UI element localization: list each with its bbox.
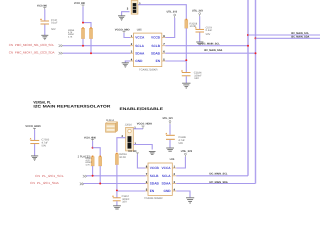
- svg-text:U25: U25: [137, 28, 142, 31]
- node junction EN: [185, 59, 187, 61]
- node VCCO_MIO (C747): [37, 4, 47, 9]
- wire: [185, 76, 187, 83]
- svg-text:50V: 50V: [42, 144, 47, 147]
- svg-text:EN: EN: [156, 59, 161, 63]
- resistor R3256: [81, 27, 84, 38]
- svg-text:CN PMC_MIO46_501_I2C0_SCL: CN PMC_MIO46_501_I2C0_SCL: [9, 43, 55, 47]
- svg-text:I2C_MAIN_SDA: I2C_MAIN_SDA: [291, 36, 310, 39]
- wire I2C_MAIN_SCL bus vertical: [247, 0, 249, 176]
- left pin stubs: [130, 38, 134, 62]
- wire: [92, 166, 94, 176]
- svg-text:SDAA: SDAA: [162, 182, 172, 186]
- capacitor C579: [195, 26, 213, 36]
- svg-text:SCLA: SCLA: [162, 174, 171, 178]
- wire: [169, 124, 171, 135]
- svg-text:SDAA: SDAA: [135, 51, 145, 55]
- svg-text:SCLA: SCLA: [135, 44, 144, 48]
- wire I2C_MAIN_SDA to right edge: [256, 37, 320, 39]
- net PL_I2C1_SDA: [30, 181, 84, 185]
- svg-text:VCCB: VCCB: [150, 166, 160, 170]
- wire I2C_MAIN_SDA bus vertical: [255, 0, 257, 184]
- node junction: [82, 22, 84, 24]
- wire: [137, 154, 145, 168]
- ground: [122, 63, 129, 67]
- node VCCO_HDIO (pullups): [84, 136, 96, 141]
- net PMC_MIO46_501_I2C0_SCL: [9, 43, 63, 47]
- wire I2C_MAIN_SCL to right edge: [248, 34, 320, 36]
- node junction: [90, 52, 92, 54]
- node junction: [92, 147, 94, 149]
- svg-text:VCCO_HDIO: VCCO_HDIO: [25, 125, 40, 128]
- wire SDAB to bus: [165, 52, 255, 54]
- wire EN row: [117, 190, 145, 192]
- svg-text:4.7K: 4.7K: [86, 163, 91, 166]
- wire: [34, 130, 36, 140]
- node junction EN: [116, 190, 118, 192]
- svg-text:VCCO_HDIO: VCCO_HDIO: [137, 123, 152, 126]
- svg-text:J2016: J2016: [125, 124, 133, 127]
- node junction: [247, 34, 249, 36]
- node UTIL_3V3 (VCCA pin bottom): [181, 150, 193, 157]
- svg-text:UTIL_3V3: UTIL_3V3: [181, 150, 193, 153]
- svg-text:VCCO_MIO: VCCO_MIO: [37, 4, 47, 7]
- svg-text:VCCB: VCCB: [151, 36, 161, 40]
- svg-text:SCLB: SCLB: [150, 174, 159, 178]
- svg-text:TCA9517DGKR: TCA9517DGKR: [139, 69, 158, 72]
- svg-text:TCA9517DGKR: TCA9517DGKR: [144, 197, 163, 200]
- wire: [185, 61, 187, 72]
- pin numbers: [131, 35, 165, 62]
- ground: [113, 206, 121, 209]
- wire pin2 to R2016: [117, 138, 126, 152]
- svg-text:GND: GND: [164, 189, 172, 193]
- wire: [169, 140, 171, 148]
- svg-text:0.1uF: 0.1uF: [206, 29, 213, 32]
- svg-text:2 PLACES: 2 PLACES: [78, 155, 91, 158]
- wire SCLB to bus: [165, 45, 248, 47]
- connector J2016: [122, 124, 137, 151]
- node VCCO_MIO (pullups): [74, 2, 85, 7]
- op-amp U26 (I2C repeater TCA9517DGKR bottom): [144, 158, 176, 200]
- wire GND pin to ground: [125, 61, 130, 63]
- wire: [199, 16, 201, 29]
- svg-text:0.1uF: 0.1uF: [51, 22, 58, 25]
- svg-text:SCLB: SCLB: [151, 44, 160, 48]
- svg-text:10.0K: 10.0K: [119, 156, 126, 159]
- svg-text:GND: GND: [135, 59, 143, 63]
- resistor R2016: [115, 153, 127, 165]
- value labels R2011 R2012: [86, 157, 93, 167]
- wire pin3 to gnd: [122, 12, 130, 16]
- ground: [41, 35, 48, 39]
- svg-text:50V: 50V: [51, 28, 56, 31]
- svg-text:CN PMC_MIO47_501_I2C0_SDA: CN PMC_MIO47_501_I2C0_SDA: [9, 51, 55, 55]
- capacitor C7505: [30, 138, 50, 148]
- pin numbers: [146, 165, 176, 191]
- svg-text:I2C_MAIN_SCL: I2C_MAIN_SCL: [202, 43, 221, 46]
- svg-text:SDAB: SDAB: [150, 182, 160, 186]
- wire: [44, 9, 46, 20]
- node UTIL_3V3 (C1196): [163, 117, 174, 125]
- svg-text:CN PL_I2C1_SDA: CN PL_I2C1_SDA: [30, 181, 59, 185]
- wire: [99, 166, 101, 184]
- resistor R3258: [185, 19, 198, 28]
- ground: [118, 16, 125, 20]
- svg-text:I2C MAIN REPEATER/ISOLATOR: I2C MAIN REPEATER/ISOLATOR: [33, 105, 110, 109]
- wire pin1 to VCCO_HDIO: [133, 128, 143, 130]
- wire R3258 to EN: [185, 28, 187, 61]
- svg-text:I2C_MAIN_SCL: I2C_MAIN_SCL: [291, 32, 310, 35]
- wire: [176, 157, 185, 168]
- wire: [90, 39, 92, 54]
- svg-text:UTIL_3V3: UTIL_3V3: [167, 11, 178, 14]
- ground: [186, 198, 194, 203]
- svg-text:50V: 50V: [206, 33, 211, 36]
- node junction: [247, 45, 249, 47]
- resistor R2011: [91, 156, 94, 167]
- ground: [149, 152, 156, 155]
- svg-text:VCCA: VCCA: [162, 166, 172, 170]
- wire: [92, 141, 94, 148]
- node junction: [92, 175, 94, 177]
- node VCCO_HDIO (VCCB pin): [128, 150, 139, 155]
- node UTIL_3V3 (VCCB): [167, 11, 178, 18]
- wire SDAA to bus: [176, 183, 255, 185]
- svg-text:I2C_MAIN_SDA: I2C_MAIN_SDA: [204, 49, 223, 52]
- node junction: [99, 183, 101, 185]
- svg-text:EN: EN: [150, 189, 155, 193]
- svg-text:16V: 16V: [122, 200, 127, 203]
- node VCCO_HDIO (C7505): [25, 125, 40, 130]
- wire SDAB: [83, 183, 145, 185]
- value labels R3256 R3257: [68, 29, 75, 39]
- right pin stubs: [162, 38, 166, 62]
- capacitor C1167: [112, 195, 130, 203]
- wire: [116, 191, 118, 197]
- pin names: [150, 166, 171, 193]
- connector J2015 (top): [127, 1, 141, 15]
- svg-text:VCCO_HDIO: VCCO_HDIO: [128, 150, 137, 153]
- wire UTIL_3V3 to VCCB: [165, 18, 175, 38]
- wire: [116, 201, 118, 205]
- capacitor C747: [40, 18, 58, 31]
- svg-text:UTIL_3V3: UTIL_3V3: [163, 117, 174, 120]
- node VCCO_MIO (VCCA pin): [115, 28, 130, 33]
- wire: [124, 33, 130, 38]
- wire SCLB: [87, 175, 146, 177]
- net PL_I2C1_SCL: [35, 174, 87, 178]
- svg-text:MJB14: MJB14: [106, 119, 115, 122]
- svg-text:VCCO_MIO: VCCO_MIO: [115, 28, 130, 31]
- wire pin2 to EN resistor: [138, 5, 186, 20]
- node VCCO_HDIO (J2016 pin1): [137, 123, 152, 129]
- svg-text:VCCA: VCCA: [135, 36, 145, 40]
- svg-text:SDAB: SDAB: [151, 51, 161, 55]
- svg-text:4.7K: 4.7K: [68, 35, 73, 38]
- svg-text:UTIL_3V3: UTIL_3V3: [192, 9, 203, 12]
- right pin stubs: [172, 168, 176, 191]
- ground: [31, 156, 38, 160]
- node junction: [82, 45, 84, 47]
- wire R2016 to EN: [116, 165, 118, 191]
- node UTIL_3V3 (C579): [192, 9, 203, 16]
- wire: [199, 33, 201, 42]
- wire pin3 to ground: [133, 145, 152, 150]
- resistor R2012: [99, 156, 102, 167]
- left pin stubs: [145, 168, 148, 191]
- svg-text:VCCO_MIO: VCCO_MIO: [74, 2, 85, 5]
- svg-text:I2C_MAIN_SDA: I2C_MAIN_SDA: [209, 181, 228, 184]
- net PMC_MIO47_501_I2C0_SDA: [9, 51, 63, 55]
- ground: [196, 42, 203, 45]
- capacitor C2184: [181, 70, 202, 80]
- svg-text:CN PL_I2C1_SCL: CN PL_I2C1_SCL: [35, 174, 64, 178]
- wire: [82, 7, 84, 23]
- resistor R3257: [89, 27, 92, 38]
- svg-text:50V: 50V: [178, 142, 183, 145]
- wire: [83, 23, 91, 29]
- svg-text:VCCO_HDIO: VCCO_HDIO: [84, 136, 96, 139]
- svg-text:U26: U26: [170, 158, 175, 161]
- ground: [182, 83, 190, 88]
- ground: [166, 148, 174, 151]
- svg-text:I2C_MAIN_SCL: I2C_MAIN_SCL: [209, 172, 228, 175]
- wire: [44, 25, 46, 36]
- wire: [93, 148, 101, 157]
- wire: [82, 39, 84, 46]
- wire SCL A-side: [63, 45, 131, 47]
- pin names: [135, 36, 160, 64]
- wire GND pin bottom: [176, 191, 190, 197]
- node junction: [255, 37, 257, 39]
- wire SDA A-side: [63, 52, 131, 54]
- op-amp U25 (I2C repeater TCA9517DGKR): [130, 28, 165, 71]
- capacitor C1196: [165, 133, 186, 145]
- jumper shunt MJB14: [106, 119, 118, 132]
- node junction: [255, 52, 257, 54]
- svg-text:ENABLE/DISABLE: ENABLE/DISABLE: [120, 107, 164, 111]
- wire SCLA to bus: [176, 175, 248, 177]
- svg-text:16V: 16V: [194, 77, 199, 80]
- wire EN pin: [165, 60, 186, 62]
- wire: [34, 144, 36, 156]
